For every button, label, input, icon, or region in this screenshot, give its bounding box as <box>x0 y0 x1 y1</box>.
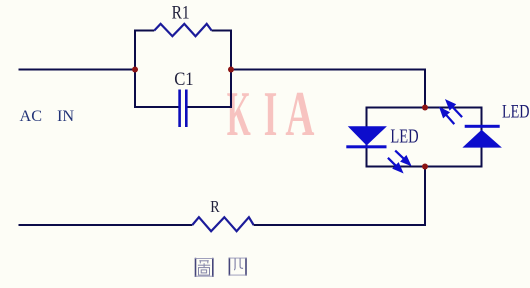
wire: C1 bottom-left lead <box>134 106 180 108</box>
node: junction at LED loop top <box>422 105 428 111</box>
svg-text:A: A <box>285 78 314 149</box>
label AC IN <box>20 107 75 125</box>
wire: C1 bottom-right lead <box>186 106 232 108</box>
svg-text:R1: R1 <box>172 3 190 24</box>
wire: LED loop bottom rail <box>367 166 482 168</box>
wire: bottom right run <box>254 224 426 226</box>
LED D2 emission arrows <box>441 101 462 124</box>
svg-text:IN: IN <box>57 107 74 125</box>
svg-text:C1: C1 <box>174 69 193 90</box>
svg-text:LED: LED <box>390 125 418 147</box>
LED D1 emission arrows <box>388 151 410 172</box>
resistor R1 <box>154 24 211 36</box>
svg-text:LED: LED <box>502 101 530 122</box>
KIA watermark <box>227 78 315 149</box>
wire: LED loop top rail <box>367 107 482 109</box>
wire: LED loop left vertical <box>366 107 368 168</box>
wire: AC top-left lead <box>19 69 136 71</box>
wire: RC loop left vertical <box>134 31 136 108</box>
caption 圖 (figure) glyph <box>195 258 213 277</box>
wire: bottom left run <box>19 224 193 226</box>
wire: top middle run <box>231 69 425 71</box>
svg-text:R: R <box>210 197 220 216</box>
wire: RC loop right vertical <box>230 31 232 108</box>
node: junction at LED loop bottom <box>422 164 428 170</box>
wire: top-right corner drop <box>424 69 426 108</box>
wire: R1 top-right lead <box>212 30 232 32</box>
node: junction at RC loop right <box>228 67 234 73</box>
wire: LED loop right vertical <box>481 107 483 168</box>
resistor R <box>192 217 253 231</box>
svg-text:I: I <box>264 78 278 149</box>
wire: R1 top-left lead <box>134 30 154 32</box>
LED D2 (right, anode bottom) <box>462 125 502 148</box>
caption 四 (four) glyph <box>229 258 247 276</box>
LED D1 (left, anode top) <box>346 126 387 148</box>
capacitor C1 <box>180 90 187 128</box>
node: junction at RC loop left <box>132 67 138 73</box>
wire: feed down from LED loop <box>424 167 426 227</box>
svg-text:AC: AC <box>20 107 43 125</box>
